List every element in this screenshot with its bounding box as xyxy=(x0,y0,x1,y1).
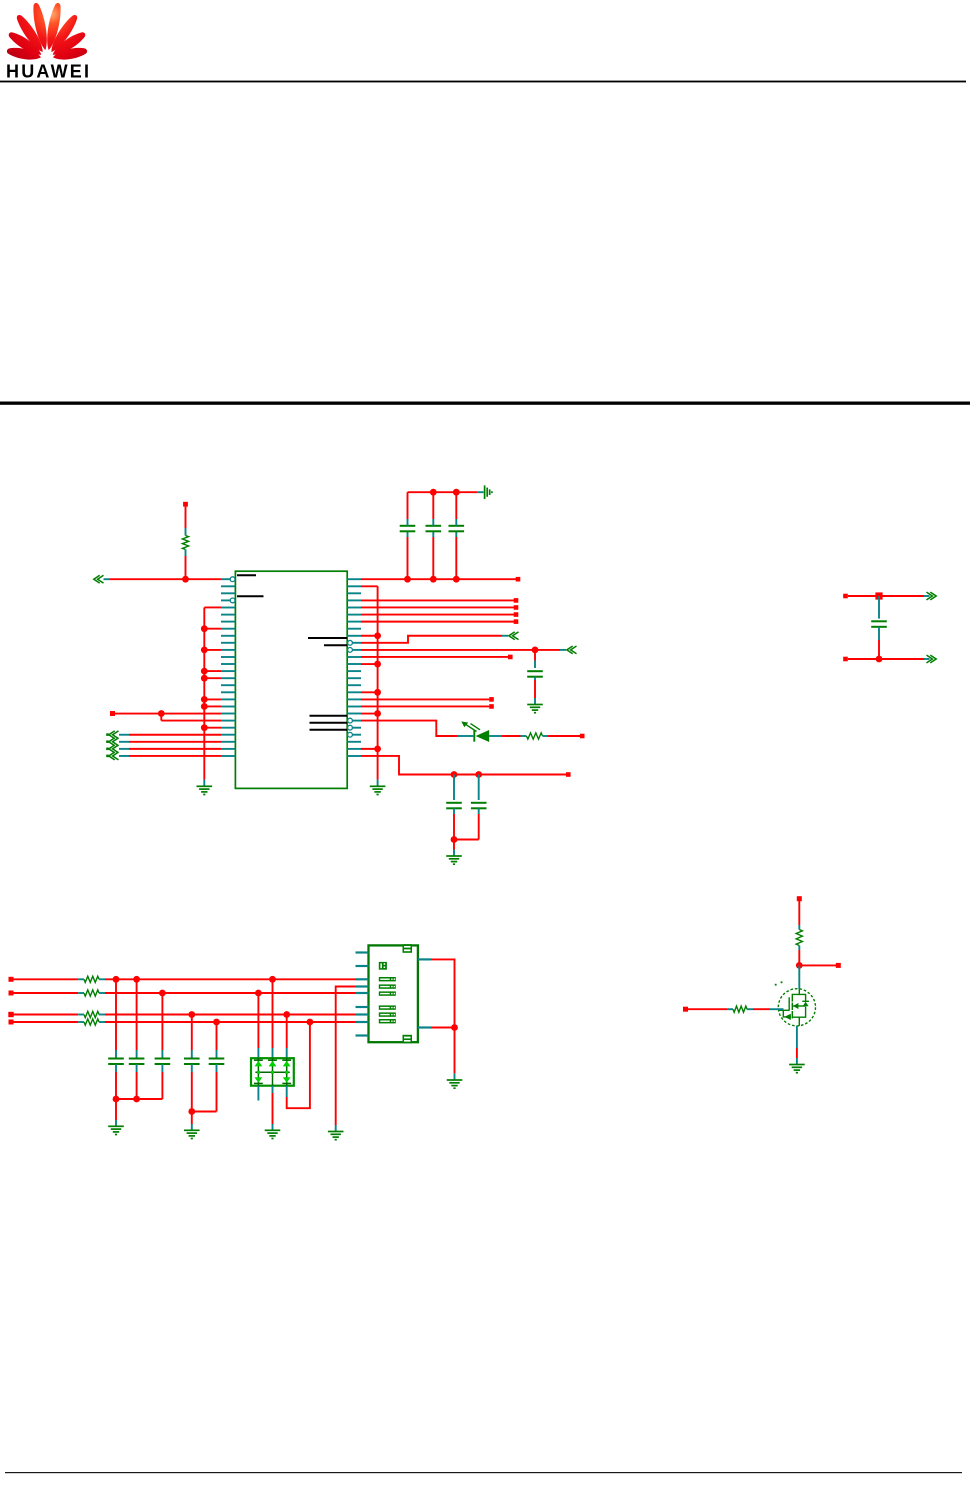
resistor R row A xyxy=(84,976,99,982)
junction xyxy=(430,489,437,496)
connector J1 contact bar xyxy=(379,984,396,988)
wire LED net xyxy=(361,721,458,736)
resistor R row D xyxy=(84,1019,99,1025)
wire bus stub xyxy=(204,677,221,679)
capacitor C row B x162 xyxy=(161,993,163,1050)
wire node to terminal xyxy=(799,964,836,966)
terminal Q1 drain net xyxy=(797,896,802,901)
section divider bar xyxy=(0,402,970,405)
wire row A left xyxy=(14,978,79,980)
wire stub net xyxy=(361,698,489,700)
terminal T2 xyxy=(110,711,115,716)
wire connector pin4 to ground xyxy=(336,987,357,1126)
ground GND1 xyxy=(197,786,213,794)
terminal xyxy=(843,594,848,599)
ground GND10 xyxy=(447,1080,463,1088)
wire caps 4-5 bottoms xyxy=(191,1072,193,1112)
port P9 chevron xyxy=(927,655,937,663)
wire bus stub xyxy=(361,713,378,715)
port P7 chevron xyxy=(567,646,577,654)
wire row C right xyxy=(99,1014,105,1016)
wire row D left xyxy=(14,1021,79,1023)
capacitor C1 xyxy=(407,537,409,579)
junction xyxy=(188,1108,195,1115)
capacitor C row A x116 xyxy=(115,979,117,1050)
diode array D2 body xyxy=(251,1058,294,1086)
capacitor C3 xyxy=(455,537,457,579)
wire stub net xyxy=(361,599,514,601)
capacitor C row D x216 xyxy=(216,1022,218,1050)
LED D1 xyxy=(458,735,473,737)
junction xyxy=(201,625,208,632)
wire net A1 xyxy=(104,578,111,580)
wire stub net xyxy=(361,705,489,707)
junction xyxy=(430,576,437,583)
junction xyxy=(796,962,803,969)
wire diode col1 bottom (nc) xyxy=(257,1086,259,1101)
terminal row C xyxy=(8,1012,13,1017)
connector J1 contact bar xyxy=(379,1019,396,1023)
wire net top xyxy=(848,595,924,597)
wire input net xyxy=(119,734,129,736)
junction xyxy=(404,576,411,583)
pin name bar right pin 22 xyxy=(310,729,348,731)
diode array D2 internals xyxy=(254,1058,291,1086)
pin name bar right pin 9 xyxy=(308,637,347,639)
connector J1 contact bar xyxy=(379,991,396,995)
wire diode col1 top xyxy=(257,993,259,1048)
junction xyxy=(374,661,381,668)
port P3 chevron xyxy=(109,738,119,746)
ground GND11 xyxy=(789,1065,805,1073)
wire R1 bottom lead xyxy=(185,550,187,557)
port P4 chevron xyxy=(109,745,119,753)
ground GND4 xyxy=(527,705,543,713)
terminal xyxy=(836,963,841,968)
junction xyxy=(159,990,166,997)
connector J1 contact bar xyxy=(379,1005,396,1009)
wire gate net xyxy=(683,1007,688,1012)
ground GND6 xyxy=(108,1126,124,1134)
terminal of R1 xyxy=(183,502,188,507)
terminal xyxy=(514,612,519,617)
junction xyxy=(201,647,208,654)
wire input net xyxy=(119,755,129,757)
terminal xyxy=(489,704,494,709)
pin name bar right pin 20 xyxy=(310,715,348,717)
wire caps 1-3 bottoms xyxy=(115,1072,117,1099)
wire net VCC bus xyxy=(361,578,516,580)
junction xyxy=(255,990,262,997)
junction xyxy=(201,724,208,731)
wire cap bottoms xyxy=(454,839,479,841)
terminal xyxy=(514,605,519,610)
junction xyxy=(201,696,208,703)
junction xyxy=(182,576,189,583)
ground GND7 xyxy=(184,1130,200,1138)
connector J1 contact bar xyxy=(379,1012,396,1016)
wire row B right xyxy=(99,992,105,994)
Huawei logo xyxy=(7,3,87,60)
junction xyxy=(451,836,458,843)
connector J1 body xyxy=(369,945,418,1042)
terminal row A xyxy=(9,977,14,982)
junction xyxy=(188,1011,195,1018)
wire LED to resistor xyxy=(502,735,521,737)
capacitor C5b xyxy=(478,775,480,801)
wire stub net xyxy=(361,614,514,616)
wire diode col2 bottom to ground xyxy=(272,1086,274,1093)
terminal xyxy=(508,655,513,660)
wire to ground xyxy=(115,1099,117,1120)
junction xyxy=(269,976,276,983)
terminal row B xyxy=(9,991,14,996)
ground GND2 (rotated) xyxy=(485,485,492,499)
wire stub net xyxy=(361,656,508,658)
wire node to Q1 drain xyxy=(798,965,800,988)
connector J1 contact bar xyxy=(379,977,396,981)
wire net with cap xyxy=(361,649,535,651)
wire bus stub xyxy=(361,663,378,665)
wire row C left xyxy=(14,1014,79,1016)
capacitor C4 xyxy=(534,650,536,661)
wire left ground bus xyxy=(203,607,205,779)
ground GND9 xyxy=(328,1132,344,1140)
wire bus stub xyxy=(361,748,378,750)
capacitor C5a xyxy=(453,775,455,801)
svg-text:HUAWEI: HUAWEI xyxy=(6,62,91,82)
junction xyxy=(283,1011,290,1018)
wire diode col2 top xyxy=(272,979,274,1048)
wire row D right xyxy=(99,1021,105,1023)
pin name bar left pin 1 xyxy=(237,574,256,576)
wire gate lead xyxy=(747,1008,753,1010)
junction xyxy=(133,1096,140,1103)
terminal xyxy=(566,772,571,777)
wire net bottom xyxy=(848,658,924,660)
transistor Q1 (MOSFET) xyxy=(778,989,815,1026)
junction xyxy=(374,689,381,696)
header rule xyxy=(0,81,966,83)
wire row A right xyxy=(99,978,105,980)
junction xyxy=(453,489,460,496)
wire bus stub xyxy=(204,649,221,651)
junction xyxy=(213,1019,220,1026)
connector J1 small icon xyxy=(379,962,387,970)
junction xyxy=(201,703,208,710)
resistor R8 xyxy=(733,1006,747,1012)
IC U1 left inverted pin 1 xyxy=(221,578,230,580)
port P1 chevron xyxy=(94,575,104,583)
terminal xyxy=(580,734,585,739)
wire diode col3 bottom loop to row D xyxy=(286,1086,288,1097)
terminal xyxy=(489,697,494,702)
pin name bar left pin 4 xyxy=(237,595,264,597)
junction xyxy=(374,710,381,717)
wire drain net xyxy=(798,901,800,925)
resistor R7 xyxy=(796,930,802,946)
capacitor C row A x136 xyxy=(136,979,138,1050)
wire stub net xyxy=(361,621,514,623)
IC U1 body xyxy=(235,571,347,788)
wire R1 top lead xyxy=(185,507,187,529)
junction xyxy=(113,976,120,983)
wire right ground bus xyxy=(361,585,378,587)
junction xyxy=(158,710,165,717)
port P5 chevron xyxy=(109,752,119,760)
terminal row D xyxy=(9,1020,14,1025)
junction xyxy=(451,1024,458,1031)
ground GND3 xyxy=(370,786,386,794)
junction xyxy=(453,576,460,583)
resistor R row C xyxy=(84,1011,99,1017)
resistor R6 xyxy=(521,735,527,737)
resistor R row B xyxy=(84,990,99,996)
resistor R1 xyxy=(182,536,188,550)
ground GND8 xyxy=(265,1130,281,1138)
port P2 chevron xyxy=(109,731,119,739)
wire input net xyxy=(119,741,129,743)
junction xyxy=(451,771,458,778)
junction xyxy=(307,1019,314,1026)
ground GND5 xyxy=(446,856,462,864)
pin name bar right pin 10 xyxy=(324,644,347,646)
wire stub net xyxy=(361,606,514,608)
IC U1 right inverted pins xyxy=(352,643,361,735)
wire to ground xyxy=(191,1112,193,1125)
wire to ground xyxy=(453,840,455,850)
connector J1 left pins xyxy=(356,953,432,1036)
wire bus stub xyxy=(361,635,378,637)
wire net B1 branch xyxy=(160,714,162,721)
capacitor C2 xyxy=(432,537,434,579)
terminal xyxy=(516,577,521,582)
wire resistor to terminal xyxy=(548,735,580,737)
wire bus stub xyxy=(204,705,221,707)
wire resistor to node xyxy=(798,946,800,951)
IC U1 left inverted pin 4 xyxy=(221,599,230,601)
junction xyxy=(201,668,208,675)
wire row B left xyxy=(14,992,79,994)
wire net to port (step) xyxy=(361,636,502,643)
junction xyxy=(374,632,381,639)
wire source to ground xyxy=(796,1026,798,1048)
junction xyxy=(113,1096,120,1103)
wire bus stub xyxy=(361,691,378,693)
wire bus stub xyxy=(204,628,221,630)
junction xyxy=(532,647,539,654)
port P6 chevron xyxy=(509,632,519,640)
terminal xyxy=(843,657,848,662)
pin name bar right pin 21 xyxy=(310,722,348,724)
wire connector right pins to ground xyxy=(431,959,455,1073)
junction xyxy=(201,675,208,682)
wire net B1 xyxy=(115,713,221,715)
connector J1 key icon bottom-right xyxy=(403,1035,413,1043)
wire bus stub xyxy=(204,670,221,672)
IC U1 left pins xyxy=(221,586,235,756)
junction xyxy=(374,745,381,752)
connector J1 key icon top-right xyxy=(403,944,413,953)
wire bus stub xyxy=(204,727,221,729)
junction xyxy=(133,976,140,983)
junction xyxy=(876,656,883,663)
junction xyxy=(475,771,482,778)
port P8 chevron xyxy=(927,592,937,600)
capacitor C6 xyxy=(878,596,880,619)
wire net to caps C5 xyxy=(361,756,566,775)
wire input net xyxy=(119,748,129,750)
wire cap top bus xyxy=(408,491,478,493)
junction xyxy=(875,592,882,599)
terminal xyxy=(514,619,519,624)
terminal xyxy=(514,598,519,603)
wire bus stub xyxy=(204,698,221,700)
footer rule xyxy=(5,1472,962,1473)
IC U1 right pins xyxy=(347,579,361,756)
wire diode col3 top xyxy=(286,1015,288,1049)
capacitor C row C x191 xyxy=(191,1015,193,1051)
